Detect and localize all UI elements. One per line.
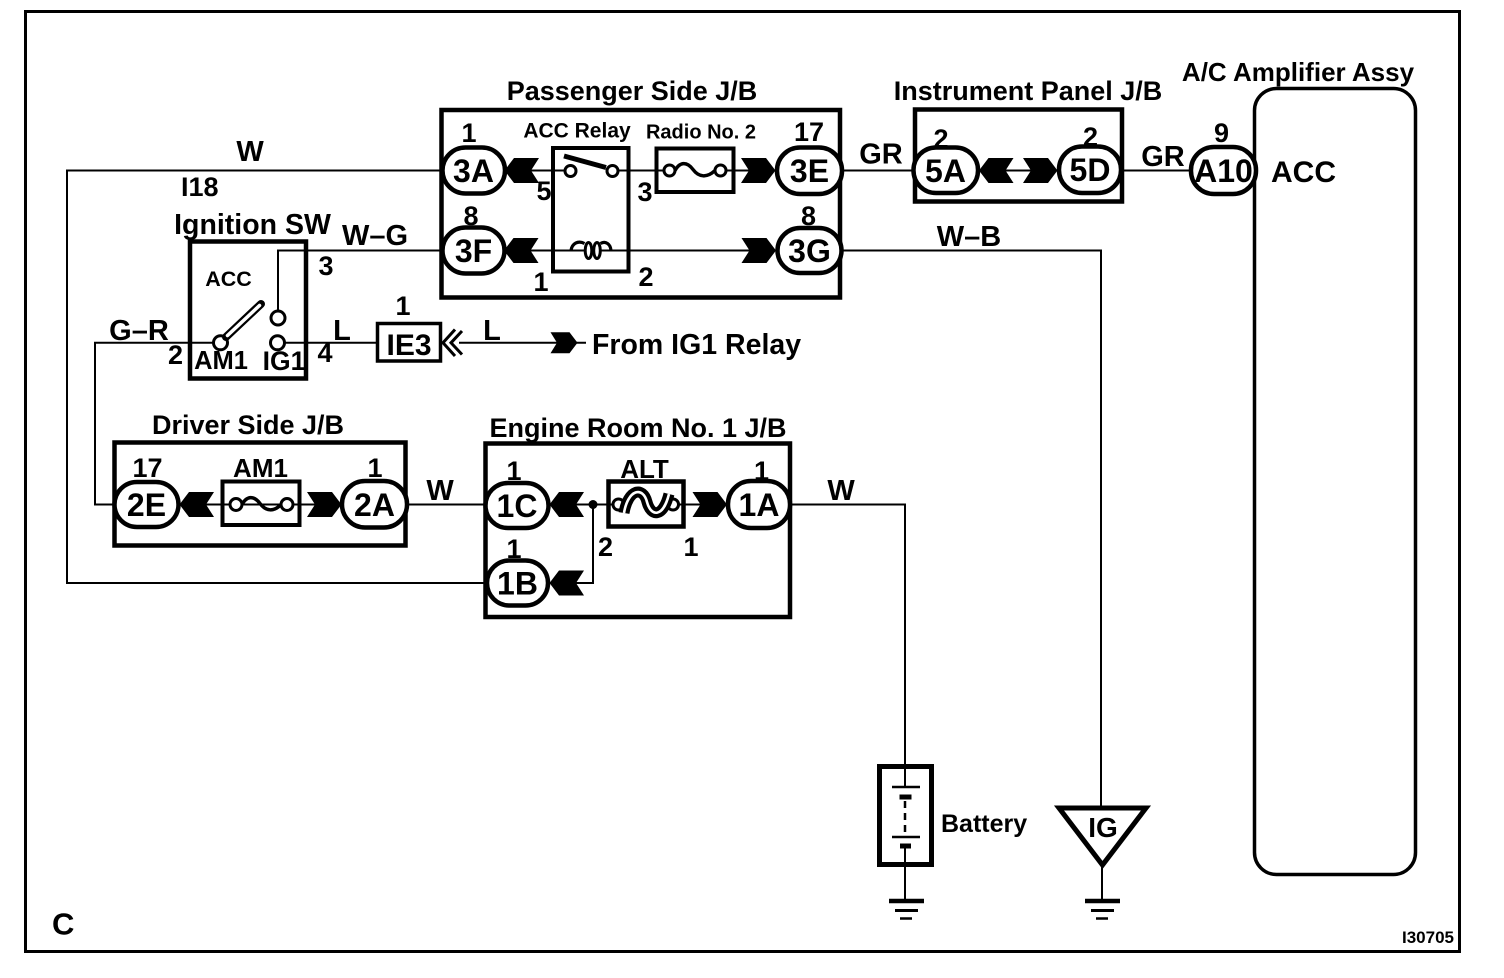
fuse contact left xyxy=(664,165,675,176)
svg-text:GR: GR xyxy=(859,139,903,171)
IG bottom wire xyxy=(1101,865,1103,901)
arrow left after 1B xyxy=(550,571,585,596)
svg-text:I18: I18 xyxy=(181,172,219,202)
contact IG1 upper xyxy=(271,311,285,325)
arrow right before 1A xyxy=(693,492,728,517)
battery dashes xyxy=(904,801,907,838)
wire W from 3A left and down left side to 1B xyxy=(67,171,565,584)
svg-text:L: L xyxy=(483,315,501,347)
AM1 fuse contact left xyxy=(230,499,242,511)
svg-text:1: 1 xyxy=(461,118,476,148)
arrow left after 2E xyxy=(180,492,215,517)
ALT fuse box xyxy=(609,482,684,527)
IE3 connector box xyxy=(378,324,441,362)
svg-text:A10: A10 xyxy=(1194,153,1253,189)
fuse contact right xyxy=(715,165,726,176)
svg-text:AM1: AM1 xyxy=(233,453,288,483)
battery plate long bottom xyxy=(892,836,920,839)
svg-text:ACC: ACC xyxy=(205,267,252,291)
svg-text:GR: GR xyxy=(1141,141,1185,173)
svg-text:W: W xyxy=(236,136,264,168)
svg-text:5A: 5A xyxy=(925,153,966,189)
svg-text:1C: 1C xyxy=(497,488,538,524)
fuse wave xyxy=(675,164,715,176)
wire L from IE3 chevron to arrow xyxy=(459,342,586,344)
relay switch blade xyxy=(564,156,606,168)
arrow to From IG1 Relay xyxy=(551,332,578,353)
wire G-R from AM1 pin down to 2E xyxy=(95,343,221,505)
contact IG1 lower xyxy=(271,336,285,350)
svg-text:4: 4 xyxy=(317,338,332,368)
svg-text:Battery: Battery xyxy=(941,810,1027,838)
svg-text:8: 8 xyxy=(801,201,816,231)
AM1 fuse wave xyxy=(242,498,281,510)
svg-text:17: 17 xyxy=(132,453,162,483)
svg-text:2: 2 xyxy=(638,262,653,292)
svg-text:2: 2 xyxy=(598,532,613,562)
svg-text:A/C Amplifier Assy: A/C Amplifier Assy xyxy=(1182,57,1415,87)
svg-text:IG1: IG1 xyxy=(263,346,306,376)
connector 3E xyxy=(777,148,842,195)
junction node xyxy=(589,500,598,509)
connector 1C xyxy=(486,483,549,528)
battery plate short bottom xyxy=(900,844,911,849)
svg-text:3E: 3E xyxy=(790,153,829,189)
svg-text:G–R: G–R xyxy=(109,315,169,347)
arrow left after 3A xyxy=(505,158,540,183)
wire L IG1 pin to IE3 xyxy=(278,342,376,344)
ALT contact right xyxy=(668,499,679,510)
svg-text:3: 3 xyxy=(318,251,333,281)
connector 1A xyxy=(728,481,790,528)
relay contact right xyxy=(607,166,618,177)
connector 3G xyxy=(778,228,842,273)
IG ground xyxy=(1085,899,1120,904)
svg-text:2: 2 xyxy=(168,340,183,370)
svg-text:17: 17 xyxy=(794,117,824,147)
svg-text:ALT: ALT xyxy=(620,454,669,484)
A/C Amplifier Assy box xyxy=(1255,89,1416,875)
double chevron after IE3 xyxy=(443,330,462,357)
svg-text:W–G: W–G xyxy=(342,220,408,252)
svg-text:Ignition SW: Ignition SW xyxy=(174,209,331,241)
contact AM1 xyxy=(214,336,228,350)
Radio No. 2 fuse box xyxy=(657,149,734,193)
svg-text:1: 1 xyxy=(367,453,382,483)
IG triangle xyxy=(1059,808,1146,865)
svg-text:3F: 3F xyxy=(455,233,492,269)
svg-text:Instrument Panel J/B: Instrument Panel J/B xyxy=(894,76,1163,106)
arrow right before 2A xyxy=(307,492,342,517)
svg-text:3A: 3A xyxy=(453,153,494,189)
battery plate long top xyxy=(892,786,920,789)
svg-text:ACC Relay: ACC Relay xyxy=(523,120,631,143)
connector 2A xyxy=(342,481,407,528)
connector 5D xyxy=(1059,147,1121,194)
svg-text:5: 5 xyxy=(536,176,551,206)
svg-text:8: 8 xyxy=(463,201,478,231)
connector 5A xyxy=(914,148,979,194)
wire between 5A and 5D xyxy=(978,170,1059,172)
Instrument Panel J/B box xyxy=(915,110,1122,202)
arrow left after 1C xyxy=(550,492,585,517)
battery bottom wire xyxy=(904,846,906,901)
svg-text:L: L xyxy=(333,315,351,347)
svg-text:1: 1 xyxy=(754,456,769,486)
ALT contact left xyxy=(613,499,624,510)
connector 1B xyxy=(487,561,548,606)
svg-text:IE3: IE3 xyxy=(386,329,431,362)
svg-text:2: 2 xyxy=(1083,122,1098,152)
wire W 2E to ALT fuse xyxy=(120,504,613,506)
arrow left after 3F xyxy=(504,238,539,263)
wire junction drop to 1B xyxy=(552,505,593,584)
svg-text:9: 9 xyxy=(1214,118,1229,148)
svg-text:3: 3 xyxy=(637,177,652,207)
arrow right before 3E xyxy=(741,158,776,183)
switch lever xyxy=(226,304,261,337)
svg-text:I30705: I30705 xyxy=(1402,928,1454,947)
wire relay switch to Radio No.2 fuse xyxy=(617,170,665,172)
svg-text:From IG1 Relay: From IG1 Relay xyxy=(592,329,801,361)
wire GR fuse to 3E to 5A xyxy=(726,170,913,172)
Driver Side J/B box xyxy=(115,443,406,546)
svg-text:Radio No. 2: Radio No. 2 xyxy=(646,122,756,144)
Engine Room No. 1 J/B box xyxy=(486,444,791,618)
connector 3F xyxy=(443,228,505,274)
svg-text:1: 1 xyxy=(506,456,521,486)
svg-text:1: 1 xyxy=(533,267,548,297)
Ignition SW box xyxy=(190,242,306,379)
svg-text:5D: 5D xyxy=(1070,152,1111,188)
wire W-G ignition pin3 to 3F to relay coil and W-B to IG xyxy=(278,251,1101,809)
AM1 fuse box xyxy=(223,482,300,526)
arrow left IP xyxy=(979,158,1014,183)
Passenger Side J/B box xyxy=(442,110,841,298)
svg-text:Engine Room No. 1 J/B: Engine Room No. 1 J/B xyxy=(489,413,786,443)
wire GR 5D to A10 xyxy=(1121,170,1256,172)
svg-text:1A: 1A xyxy=(739,487,780,523)
connector A10 xyxy=(1191,147,1256,194)
svg-text:Passenger Side J/B: Passenger Side J/B xyxy=(507,76,758,106)
svg-text:2: 2 xyxy=(933,124,948,154)
ALT fusible link xyxy=(624,492,669,513)
svg-text:1: 1 xyxy=(395,291,410,321)
svg-text:IG: IG xyxy=(1088,812,1118,843)
svg-text:W–B: W–B xyxy=(937,221,1001,253)
arrow right IP xyxy=(1023,158,1058,183)
svg-text:2E: 2E xyxy=(127,487,166,523)
ACC Relay box xyxy=(553,148,629,272)
svg-text:AM1: AM1 xyxy=(194,347,248,375)
svg-text:3G: 3G xyxy=(788,233,831,269)
svg-text:2A: 2A xyxy=(354,487,395,523)
svg-text:W: W xyxy=(426,475,454,507)
connector 3A xyxy=(443,148,506,194)
relay coil xyxy=(571,242,585,250)
battery plate short top xyxy=(900,795,912,800)
svg-text:C: C xyxy=(52,907,74,942)
svg-text:1: 1 xyxy=(506,534,521,564)
wire W ALT fuse to 1A to battery xyxy=(679,505,905,788)
battery box xyxy=(880,767,932,865)
arrow right before 3G xyxy=(742,238,777,263)
battery ground xyxy=(889,899,924,904)
svg-text:1B: 1B xyxy=(497,566,538,602)
svg-text:W: W xyxy=(827,475,855,507)
svg-text:Driver Side J/B: Driver Side J/B xyxy=(152,410,344,440)
relay contact left xyxy=(565,166,576,177)
svg-text:1: 1 xyxy=(683,532,698,562)
AM1 fuse contact right xyxy=(281,499,293,511)
connector 2E xyxy=(115,482,179,527)
svg-text:ACC: ACC xyxy=(1271,156,1336,189)
